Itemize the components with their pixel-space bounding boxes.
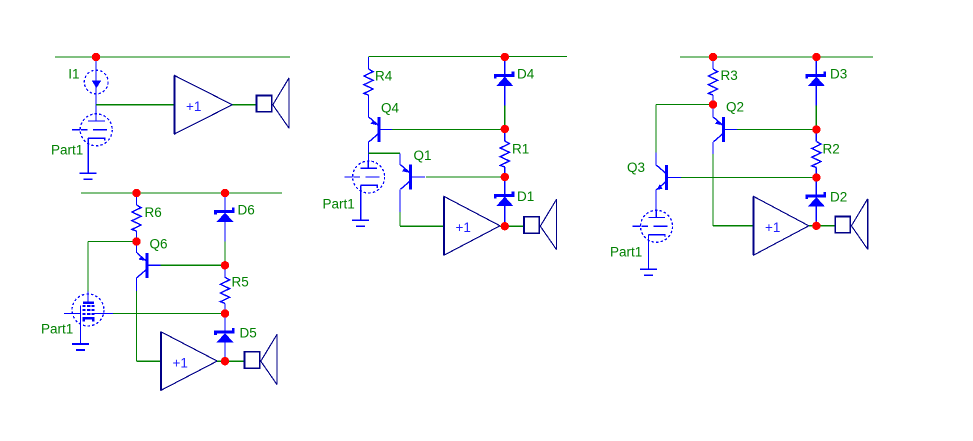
svg-text:Q4: Q4 (381, 100, 400, 115)
svg-text:R3: R3 (721, 68, 738, 83)
svg-text:R5: R5 (232, 275, 249, 290)
svg-text:Q6: Q6 (150, 237, 168, 252)
svg-text:+1: +1 (765, 220, 780, 235)
svg-text:D6: D6 (238, 203, 255, 218)
svg-text:Part1: Part1 (610, 245, 642, 260)
svg-text:+1: +1 (456, 220, 471, 235)
svg-text:R4: R4 (375, 68, 393, 83)
svg-text:R6: R6 (145, 205, 162, 220)
svg-text:D5: D5 (240, 326, 257, 341)
svg-text:Q2: Q2 (726, 100, 744, 115)
svg-text:D1: D1 (517, 189, 534, 204)
svg-text:+1: +1 (173, 355, 188, 370)
svg-text:R2: R2 (823, 142, 840, 157)
svg-text:Part1: Part1 (323, 197, 355, 212)
svg-text:Part1: Part1 (51, 143, 83, 158)
svg-text:Q1: Q1 (414, 148, 432, 163)
svg-text:I1: I1 (68, 66, 79, 81)
svg-text:Part1: Part1 (41, 321, 73, 336)
svg-text:D3: D3 (830, 67, 847, 82)
svg-text:R1: R1 (512, 141, 529, 156)
svg-text:D4: D4 (517, 67, 535, 82)
svg-text:Q3: Q3 (627, 160, 645, 175)
svg-text:D2: D2 (830, 189, 847, 204)
svg-text:+1: +1 (186, 99, 201, 114)
